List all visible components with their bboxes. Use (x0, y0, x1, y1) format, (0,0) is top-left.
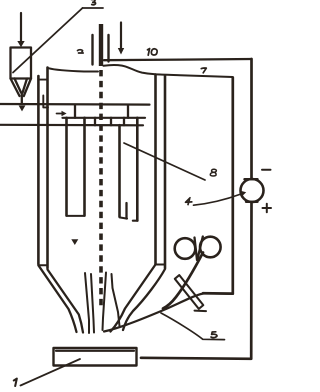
guide tube wall left of central pipe (91, 35, 93, 65)
jacket bottom bridge right (156, 264, 166, 266)
liquid level mark (71, 239, 78, 245)
blower symbol vane 2 (198, 237, 203, 260)
tube stub g (lower row) (123, 118, 125, 125)
pipe from central pipe to right riser (104, 59, 252, 60)
left feed line (lower) / lower tube plate (0, 124, 143, 127)
vessel top edge (wavy) left part (49, 68, 99, 71)
cone right outer wall (123, 269, 165, 330)
vessel top edge (wavy) right part (104, 65, 233, 77)
pump top cap (245, 178, 258, 180)
valve tail tick (195, 310, 207, 313)
draft tube 4 (136, 118, 139, 221)
jog of upper feed line at wall (43, 96, 48, 108)
cone left inner wall (48, 270, 84, 333)
plus terminal (263, 204, 272, 212)
feed arrow into hopper (17, 13, 24, 47)
leader line to label 1 (21, 359, 81, 386)
outer riser pipe upper segment (250, 59, 253, 179)
nozzle fan line right 2 (112, 274, 120, 326)
blower symbol vane 1 (195, 238, 198, 261)
tube stub b (upper row) (127, 105, 129, 118)
middle tube plate (63, 117, 146, 119)
draft tube 1 (65, 118, 68, 216)
draft tube 3 (118, 125, 121, 216)
label 8 (210, 169, 216, 176)
nozzle fan line left 2 (91, 274, 94, 333)
inflow arrow (top) (118, 23, 124, 55)
tube bottom closure left (67, 215, 85, 217)
vessel right inner wall (154, 75, 157, 265)
outer riser pipe lower segment (141, 203, 252, 359)
label 5 (211, 332, 217, 338)
jacket bottom bridge left (38, 264, 47, 266)
cone right inner wall (111, 265, 156, 332)
leader line to label 5 (161, 313, 225, 340)
guide tube wall right of central pipe (107, 35, 109, 62)
small flow arrow in annulus (57, 111, 67, 117)
pump box top inner edge (56, 350, 134, 352)
central pipe dashed (hidden below liquid) (99, 70, 103, 309)
blower symbol circle 2 (200, 237, 221, 258)
left feed line (upper) entering vessel (0, 103, 150, 106)
central pipe (solid top) (99, 24, 103, 66)
label 10 (148, 49, 158, 56)
tube 4 foot (133, 220, 138, 222)
vessel left inner wall (46, 68, 49, 269)
valve cross stroke (163, 253, 203, 309)
label 4 (186, 198, 192, 205)
pump box 1 (54, 348, 137, 366)
hopper 3 (feed bin) (11, 48, 32, 104)
leader line to label 8 (124, 143, 205, 180)
vessel left outer wall (37, 76, 40, 264)
label 2 mark (78, 50, 84, 53)
jacket top bridge (38, 79, 47, 81)
label 7 (201, 68, 206, 73)
tube stub f (lower row) (110, 118, 112, 125)
nozzle fan line right 1 (103, 273, 107, 331)
leader line to label 3 (13, 8, 103, 73)
minus terminal (262, 169, 271, 171)
label 1 (14, 379, 17, 386)
pump bottom cap (246, 201, 258, 203)
label 3 (92, 0, 96, 5)
short tube stub between tubes 3 and 4 (125, 203, 127, 219)
blower symbol circle 1 (175, 238, 196, 259)
tube stub e (lower row) (94, 118, 96, 125)
nozzle fan line left 1 (85, 273, 89, 333)
cone left outer wall (38, 265, 76, 332)
vessel right outer wall (164, 76, 167, 269)
hopper outlet arrowhead (19, 106, 26, 112)
tube bottom closure right (120, 217, 128, 218)
pump/meter circle (241, 179, 264, 202)
arrow leader to pump circle (194, 191, 247, 206)
curved discharge pipe from nozzle (104, 293, 233, 331)
inner riser pipe (right, down to cone outlet) (203, 78, 233, 294)
valve ribbon (outlined bar) (175, 275, 204, 309)
draft tube 2 (83, 118, 86, 216)
tube stub a (upper row) (74, 105, 76, 118)
